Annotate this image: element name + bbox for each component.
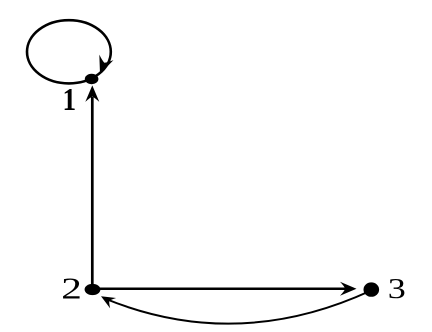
node 1 [85,74,99,84]
wire: edge 2 to 1 (vertical) [91,97,94,284]
svg-text:1: 1 [63,82,77,118]
self-loop edge on node 1 [27,20,111,83]
arrowhead edge 2->3 [340,282,357,296]
node 3 [364,282,380,296]
arrowhead edge 2->1 [85,85,99,102]
wire: edge 2 to 3 (horizontal) [98,288,347,291]
svg-text:2: 2 [61,272,82,306]
arrowhead edge 3->2 [98,291,116,308]
svg-text:3: 3 [388,273,406,304]
wire: edge 3 to 2 (curved return) [106,291,370,324]
node 2 [85,284,101,295]
self-loop arrowhead [93,55,114,77]
